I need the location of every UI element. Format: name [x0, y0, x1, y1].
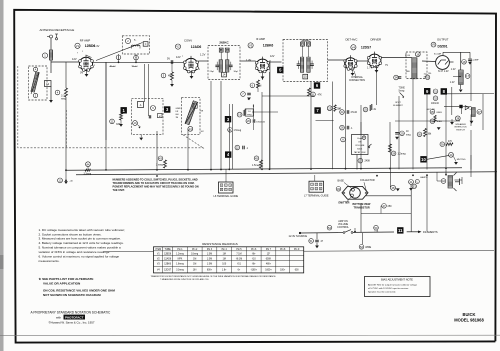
tag 31 — [433, 89, 438, 94]
wire T4 top — [460, 52, 462, 70]
callout 9 — [424, 88, 430, 94]
bus wire upper — [66, 168, 462, 170]
tube V1 cathode parts — [86, 69, 88, 74]
transistor V5 leads — [422, 60, 436, 63]
svg-text:7: 7 — [77, 53, 78, 55]
svg-text:100: 100 — [222, 264, 227, 266]
callout 10 — [420, 156, 426, 162]
svg-text:5V: 5V — [167, 58, 170, 61]
svg-text:Speaker must be connected.: Speaker must be connected. — [368, 290, 396, 293]
svg-text:30pf: 30pf — [234, 71, 239, 73]
terminal guide L7 — [309, 181, 324, 192]
svg-text:1: 1 — [311, 184, 312, 186]
svg-text:IF AMP: IF AMP — [256, 37, 265, 41]
node join — [50, 87, 52, 101]
svg-text:DRIVER: DRIVER — [371, 38, 382, 42]
res R5 20M — [250, 83, 255, 88]
v4b cathode — [376, 66, 378, 70]
scanner edge strip — [0, 0, 4, 351]
svg-text:RED: RED — [406, 71, 411, 73]
svg-text:V3: V3 — [249, 44, 253, 48]
fold line — [0, 334, 500, 336]
svg-text:TONE: TONE — [399, 87, 406, 89]
antenna jack J1 — [50, 35, 53, 38]
svg-text:L7 TERMINAL GUIDE: L7 TERMINAL GUIDE — [304, 194, 329, 197]
svg-text:INTERLOCK: INTERLOCK — [454, 127, 467, 129]
svg-text:5. Nominal tolerance on comp: 5. Nominal tolerance on component values… — [39, 246, 121, 250]
cap 100mfd — [433, 96, 438, 101]
svg-text:2. Socket connections shown: 2. Socket connections shown as bottom vi… — [39, 232, 102, 236]
svg-text:1Ω: 1Ω — [424, 74, 427, 76]
svg-text:1: 1 — [221, 185, 222, 187]
svg-text:RESISTANCE READINGS: RESISTANCE READINGS — [202, 242, 237, 246]
vert wire if2 down — [310, 82, 312, 170]
svg-text:12V: 12V — [176, 55, 181, 59]
svg-text:500K: 500K — [357, 148, 363, 150]
svg-text:BASE: BASE — [338, 180, 345, 183]
tube V1 envelope — [79, 57, 92, 70]
svg-text:1.2V: 1.2V — [200, 53, 206, 57]
svg-text:GET 3W: GET 3W — [427, 109, 436, 111]
svg-text:48mfd: 48mfd — [110, 65, 117, 68]
svg-text:RF AMP: RF AMP — [80, 39, 91, 43]
res R2 1meg — [55, 90, 60, 95]
svg-text:1.7V: 1.7V — [367, 67, 372, 70]
svg-text:L6 TERMINAL GUIDE: L6 TERMINAL GUIDE — [214, 195, 239, 198]
svg-text:7: 7 — [182, 56, 183, 58]
callout 4 — [225, 151, 231, 157]
svg-text:5: 5 — [316, 188, 317, 190]
svg-text:-40: -40 — [70, 180, 74, 182]
cap C8 — [241, 92, 246, 97]
svg-text:CONV: CONV — [184, 39, 192, 43]
tube V4a envelope — [345, 58, 357, 70]
power transistor outline — [342, 186, 368, 199]
svg-text:12AD6: 12AD6 — [164, 257, 172, 260]
osc section dashed box — [132, 98, 164, 134]
callout 8 — [441, 88, 447, 94]
svg-text:ON COIL RESISTANCE VALUES: ON COIL RESISTANCE VALUES UNDER ONE OHM — [43, 288, 115, 292]
svg-text:1.4V: 1.4V — [246, 59, 251, 62]
svg-text:24pf: 24pf — [210, 71, 215, 73]
svg-text:Pin 6: Pin 6 — [251, 249, 257, 251]
svg-text:1.5meg: 1.5meg — [234, 130, 242, 132]
svg-text:NPK: NPK — [178, 258, 183, 260]
svg-text:6. Volume control at maximum: 6. Volume control at maximum, no signal … — [39, 255, 120, 259]
T3 tag — [415, 52, 420, 57]
svg-text:A: A — [342, 138, 344, 142]
vert wires to guides — [225, 170, 227, 183]
vert wire tuning down — [187, 129, 189, 170]
svg-text:0V: 0V — [80, 71, 83, 75]
svg-text:B+: B+ — [134, 40, 137, 42]
vert wire rf coil down — [105, 62, 107, 170]
svg-text:V4: V4 — [157, 269, 161, 271]
svg-text:CONNECTION: CONNECTION — [349, 79, 365, 82]
res 10meg — [400, 131, 405, 136]
bus left drop — [65, 169, 67, 171]
svg-text:3: 3 — [320, 184, 321, 186]
svg-text:1 meg: 1 meg — [156, 163, 163, 166]
svg-text:†8+: †8+ — [252, 254, 257, 256]
res 1.5meg on bus — [254, 156, 259, 161]
svg-text:V5: V5 — [432, 43, 436, 47]
svg-text:TRANSISTOR SOCKET RESISTANCE N: TRANSISTOR SOCKET RESISTANCE NOT GIVEN B… — [151, 275, 277, 278]
svg-text:Pin 1: Pin 1 — [177, 249, 183, 251]
wire T1 to V3 — [241, 60, 256, 62]
svg-text:R: R — [363, 136, 365, 140]
svg-text:11: 11 — [398, 228, 403, 233]
svg-text:1M: 1M — [223, 258, 226, 260]
svg-text:3. Measured values are from: 3. Measured values are from socket pin t… — [39, 237, 122, 241]
svg-text:ITEM: ITEM — [156, 249, 162, 251]
svg-text:2: 2 — [316, 184, 317, 186]
svg-text:A: A — [35, 68, 37, 72]
svg-text:PONENT REPLACEMENT AND MAY NOT: PONENT REPLACEMENT AND MAY NOT NECESSARI… — [113, 185, 199, 189]
tuning cap C1B — [185, 101, 197, 125]
svg-text:Pin 2: Pin 2 — [192, 249, 198, 251]
res 6.8K out — [430, 110, 435, 115]
wire antenna to rf grid — [51, 61, 80, 63]
svg-text:DS501: DS501 — [438, 44, 448, 48]
wire T4 bottom gnd — [460, 85, 462, 90]
callout 5 — [277, 67, 283, 73]
svg-text:12BK6: 12BK6 — [263, 44, 274, 48]
relay coil — [471, 108, 475, 117]
svg-text:Pin 7: Pin 7 — [266, 249, 272, 251]
svg-text:Pin 5: Pin 5 — [236, 249, 242, 251]
res 3.3meg on bus — [86, 162, 91, 167]
callout 3b — [225, 116, 231, 122]
svg-text:†8+: †8+ — [252, 264, 257, 266]
wire V4b to T3 — [381, 57, 412, 59]
svg-text:1M: 1M — [176, 117, 179, 119]
svg-text:ELEMENT: ELEMENT — [393, 105, 403, 107]
svg-text:262KC: 262KC — [301, 38, 311, 42]
border frame — [14, 10, 250, 120]
svg-text:4: 4 — [311, 188, 312, 190]
svg-text:of 5.7VDC with 12.6VDC input t: of 5.7VDC with 12.6VDC input to receiver… — [368, 287, 409, 290]
svg-text:CONTROL: CONTROL — [337, 226, 349, 229]
svg-text:GRAY: GRAY — [176, 107, 182, 110]
svg-text:©Howard W. Sams & Co., Inc. 19: ©Howard W. Sams & Co., Inc. 1957 — [49, 320, 95, 324]
svg-text:12BD6: 12BD6 — [164, 254, 172, 256]
svg-text:1. DC voltage measurements t: 1. DC voltage measurements taken with va… — [39, 228, 126, 232]
tag 50 — [374, 225, 379, 230]
svg-text:WIRE: WIRE — [365, 247, 371, 249]
b+ right horizontal — [395, 120, 460, 122]
svg-text:.1: .1 — [351, 127, 354, 130]
res R2 body — [65, 62, 67, 88]
res 470 right — [440, 142, 445, 147]
svg-text:600: 600 — [176, 114, 179, 116]
svg-text:meg: meg — [61, 98, 66, 101]
wire L3 to V2 — [93, 61, 184, 63]
svg-text:3.3meg: 3.3meg — [84, 173, 92, 175]
svg-text:A PROPRIETARY STANDARD NOTA: A PROPRIETARY STANDARD NOTATION SCHEMATI… — [31, 310, 112, 314]
svg-text:680Ω: 680Ω — [437, 112, 443, 114]
callout 6 — [314, 82, 320, 88]
avc horizontal — [262, 95, 315, 97]
vert wire det down — [269, 72, 271, 170]
wire speaker feed — [470, 130, 472, 177]
svg-text:measurements.: measurements. — [39, 259, 60, 263]
svg-text:SWITCH: SWITCH — [456, 129, 465, 131]
svg-text:102: 102 — [201, 131, 204, 133]
svg-text:1.2V: 1.2V — [451, 69, 456, 71]
svg-text:6: 6 — [320, 188, 321, 190]
svg-text:BIAS ADJUSTMENT NOTE: BIAS ADJUSTMENT NOTE — [381, 278, 413, 282]
svg-text:15*: 15* — [267, 254, 271, 256]
svg-text:variation of ±15% in voltage a: variation of ±15% in voltage and resista… — [39, 250, 111, 254]
wire output row right — [447, 93, 494, 95]
svg-text:†51: †51 — [237, 264, 242, 266]
svg-text:480+: 480+ — [266, 264, 272, 266]
svg-text:1.5M: 1.5M — [207, 254, 212, 256]
osc tag 9 — [151, 106, 156, 111]
12.4v source wire — [299, 232, 301, 234]
chassis line right — [304, 249, 494, 252]
svg-text:12V: 12V — [270, 55, 275, 58]
wire power transistor down — [360, 204, 362, 233]
callout 11 — [397, 227, 403, 233]
wire filament vert — [426, 175, 428, 231]
callout 7 — [314, 107, 320, 113]
svg-text:1M: 1M — [223, 254, 226, 256]
svg-text:V2: V2 — [176, 45, 180, 49]
res net 1meg box — [245, 109, 253, 116]
wire V4a-V4b — [356, 60, 368, 62]
terminal guide L6 — [219, 182, 234, 193]
svg-text:DET-AVC: DET-AVC — [346, 38, 358, 42]
svg-text:YEL: YEL — [428, 73, 432, 75]
source dot — [354, 231, 356, 233]
cap 47 source — [309, 239, 314, 244]
svg-text:7V: 7V — [385, 64, 388, 67]
res 1.2meg — [391, 151, 396, 156]
svg-text:5: 5 — [199, 69, 200, 71]
svg-text:6: 6 — [230, 189, 231, 191]
output transformer T4 winding — [459, 70, 464, 85]
wire T2 to V4 — [328, 59, 346, 61]
svg-text:TRANSISTOR: TRANSISTOR — [354, 206, 370, 209]
svg-text:VOLUME: VOLUME — [355, 145, 365, 147]
svg-text:BUICK: BUICK — [463, 312, 476, 317]
box L2 slug — [45, 81, 52, 87]
svg-text:ADJUST R21 for output transist: ADJUST R21 for output transistor collect… — [368, 284, 418, 287]
tube V2 cathode — [191, 70, 193, 76]
osc cap C10 — [133, 121, 138, 126]
res 240K — [358, 158, 363, 163]
svg-text:2: 2 — [94, 65, 95, 67]
svg-text:VALUE OR APPLICATION: VALUE OR APPLICATION — [43, 282, 81, 286]
tag 30 — [417, 132, 422, 137]
trimmer C3 box — [143, 42, 148, 47]
avc bus wires — [65, 110, 67, 170]
svg-text:47K: 47K — [318, 93, 323, 96]
svg-text:N 47 1.2V: N 47 1.2V — [438, 70, 449, 73]
osc coil box A1 — [138, 102, 144, 108]
svg-text:47mfd: 47mfd — [351, 112, 358, 114]
right vert wires — [470, 61, 472, 101]
svg-text:V2: V2 — [157, 258, 161, 260]
svg-text:1.5M: 1.5M — [207, 258, 212, 260]
res R4 33K — [110, 119, 115, 124]
mid vert wires — [220, 81, 222, 170]
res R6 47K — [311, 92, 316, 97]
cap .1 volume — [340, 125, 345, 130]
tag 48 — [391, 185, 396, 190]
res 2k — [363, 107, 368, 112]
svg-text:DR: DR — [176, 111, 179, 113]
callout 3a — [164, 106, 170, 112]
res R1 tag — [33, 93, 37, 97]
svg-text:36k: 36k — [428, 134, 433, 136]
res 1.5meg a — [228, 128, 233, 133]
shield box antenna trimmer — [29, 66, 48, 100]
cap C2 tag — [33, 67, 37, 71]
svg-text:BLUE: BLUE — [405, 55, 411, 57]
svg-text:1.8+: 1.8+ — [222, 269, 227, 271]
svg-text:47: 47 — [321, 241, 324, 243]
svg-text:470: 470 — [448, 141, 453, 143]
driver transformer T3 winding — [412, 58, 417, 79]
svg-text:EMITTER: EMITTER — [339, 202, 350, 205]
svg-text:10: 10 — [406, 131, 409, 133]
filaments arrow — [407, 231, 419, 233]
vert wires mid right — [345, 60, 347, 170]
tag A — [134, 120, 136, 122]
svg-text:Pin 9: Pin 9 — [294, 249, 300, 251]
wire V2 to T1 — [198, 60, 207, 62]
dial cord dashed — [183, 135, 204, 149]
svg-text:250: 250 — [388, 205, 393, 208]
svg-text:12DS7: 12DS7 — [361, 45, 371, 49]
svg-text:10: 10 — [421, 157, 426, 162]
svg-text:THE UNIT.: THE UNIT. — [113, 188, 125, 192]
svg-text:Pin 8: Pin 8 — [280, 249, 286, 251]
grid return h — [252, 111, 278, 113]
svg-text:1.8meg: 1.8meg — [176, 264, 184, 266]
svg-text:12DS7: 12DS7 — [164, 269, 172, 271]
driver transformer T3 box — [406, 52, 427, 79]
svg-text:MODEL 981968: MODEL 981968 — [454, 318, 484, 323]
svg-text:C: C — [145, 44, 147, 46]
bias adjustment box — [365, 277, 431, 297]
speaker — [448, 176, 453, 189]
avc tag bottom — [58, 178, 63, 183]
svg-text:18†: 18† — [193, 269, 198, 271]
vert wire osc mixer — [228, 104, 230, 170]
svg-text:V4: V4 — [352, 45, 356, 49]
res 470 power — [382, 204, 387, 209]
svg-text:6+: 6+ — [238, 269, 241, 271]
svg-text:12AD6: 12AD6 — [191, 45, 202, 49]
svg-text:5: 5 — [225, 189, 226, 191]
res R3 4M — [161, 73, 166, 78]
speaker interlock switch — [455, 116, 460, 121]
svg-text:OUTPUT: OUTPUT — [437, 37, 449, 41]
svg-text:12.4V SOURCE: 12.4V SOURCE — [289, 234, 308, 238]
vert wire if1 down — [210, 81, 212, 170]
res 1meg on bus — [158, 156, 163, 161]
bead res — [425, 75, 429, 79]
svg-text:NE: NE — [201, 111, 204, 113]
tube V2 envelope — [184, 58, 198, 72]
svg-text:100+: 100+ — [280, 269, 286, 271]
wire antenna down — [50, 38, 52, 50]
tube V4b envelope — [368, 54, 381, 67]
svg-text:600K: 600K — [266, 258, 272, 260]
svg-text:18mfd: 18mfd — [132, 66, 139, 68]
svg-text:1M: 1M — [193, 264, 196, 266]
svg-text:4: 4 — [221, 189, 222, 191]
svg-text:B+CAP: B+CAP — [434, 52, 442, 55]
svg-text:.1: .1 — [246, 147, 249, 150]
svg-text:V3: V3 — [157, 264, 161, 266]
svg-text:2: 2 — [225, 185, 226, 187]
svg-text:ANTENNA RECEPTACLE: ANTENNA RECEPTACLE — [40, 28, 75, 32]
svg-text:12BK6: 12BK6 — [164, 264, 172, 266]
svg-text:14: 14 — [223, 74, 226, 77]
svg-text:1M: 1M — [193, 258, 196, 260]
notes leader line — [104, 251, 154, 253]
cap 1800mfd — [246, 119, 251, 124]
svg-text:3.3meg: 3.3meg — [176, 269, 184, 271]
svg-text:†8.1M: †8.1M — [236, 258, 242, 260]
svg-text:1.2meg: 1.2meg — [176, 254, 184, 256]
svg-text:L2: L2 — [46, 83, 49, 86]
wire V1 plate stub — [87, 55, 92, 57]
spk vert — [470, 155, 472, 170]
svg-text:V1: V1 — [76, 44, 80, 48]
res 1ohm 3w — [430, 119, 435, 124]
vert wire volume — [360, 122, 362, 135]
svg-text:12V: 12V — [72, 57, 77, 61]
ground v4 — [352, 68, 354, 73]
svg-text:1.5M: 1.5M — [207, 264, 212, 266]
svg-text:†10: †10 — [252, 258, 257, 260]
svg-text:1M: 1M — [337, 107, 340, 110]
rf coil box L3 — [122, 36, 149, 54]
svg-text:10meg: 10meg — [191, 254, 199, 256]
tag 49 — [336, 187, 341, 192]
svg-text:1.2V: 1.2V — [450, 82, 455, 84]
svg-text:TAP AT 150K: TAP AT 150K — [354, 151, 366, 154]
cap C4 coupling — [170, 60, 172, 64]
tag 13 — [188, 126, 193, 131]
svg-text:meg: meg — [406, 135, 411, 137]
tuning gang box — [182, 97, 201, 134]
tone control — [394, 75, 399, 80]
tube V3 cathode — [262, 71, 264, 77]
svg-text:A: A — [140, 104, 142, 107]
svg-text:240K: 240K — [365, 160, 371, 163]
cap C29 4MF — [442, 52, 444, 55]
svg-text:TUBE: TUBE — [165, 249, 172, 251]
front end dashed bottom — [18, 66, 204, 148]
antenna coil L1 — [42, 53, 47, 58]
svg-text:COLLECTOR: COLLECTOR — [360, 179, 375, 182]
svg-text:600: 600 — [295, 269, 300, 271]
svg-text:BIAS: BIAS — [437, 120, 443, 123]
svg-text:2k: 2k — [374, 109, 377, 111]
volume control box — [352, 135, 369, 155]
callout 1 — [121, 107, 127, 113]
svg-text:5meg: 5meg — [399, 91, 405, 93]
svg-text:3: 3 — [230, 185, 231, 187]
svg-text:100mfd: 100mfd — [431, 103, 439, 105]
